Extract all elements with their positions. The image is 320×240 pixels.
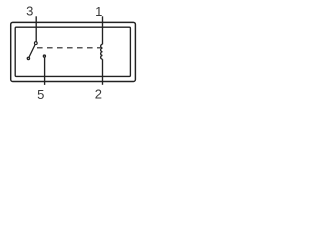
svg-text:5: 5 <box>37 87 44 102</box>
svg-text:2: 2 <box>95 86 102 101</box>
svg-text:3: 3 <box>26 4 33 19</box>
svg-text:1: 1 <box>95 4 102 19</box>
